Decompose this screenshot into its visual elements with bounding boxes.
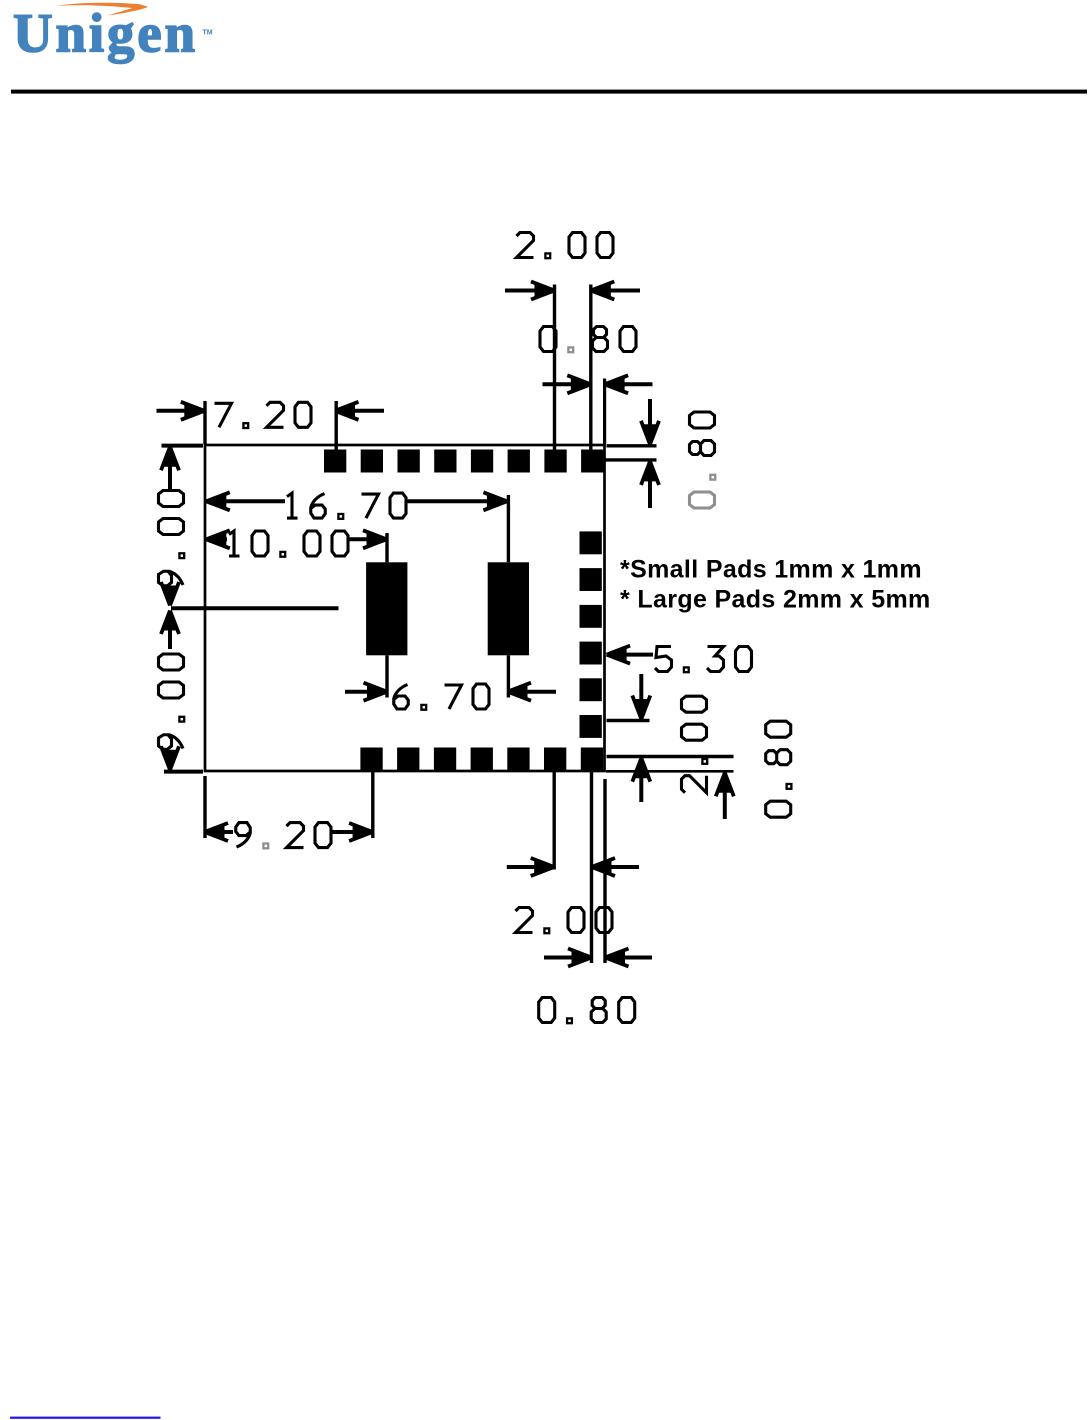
dim 2.00 right: up arrow — [632, 758, 650, 782]
dim text 0.80 right (rotated) — [766, 721, 792, 817]
dim text 0.80 top — [540, 327, 636, 353]
dim 9.00 lower: up arrow at center line — [161, 611, 179, 635]
bottom pad row (7 small pads) — [360, 748, 382, 771]
dim 6.70: right pad center extension below pad — [507, 655, 510, 697]
dim 5.30: left-pointing arrow at right edge — [607, 646, 631, 664]
dim text 0.80 top-right (rotated) — [690, 412, 716, 508]
dim 7.20: right-pointing arrow — [157, 409, 205, 413]
dim 6.70: right-pointing arrow — [345, 690, 387, 694]
dim 10.00: left-pointing arrow at left edge — [206, 530, 230, 548]
dim 0.80 bottom: right edge extension below package — [603, 779, 606, 963]
dim 0.80 top-right: up arrow — [641, 461, 659, 485]
dim 0.80 top: right edge extension line — [603, 379, 606, 445]
dim text 0.80 bottom — [539, 998, 635, 1024]
footer blue rule — [10, 1417, 161, 1419]
dim 9.00 lower: bottom tick — [164, 770, 203, 774]
dim 7.20: left-pointing arrow — [335, 402, 359, 420]
svg-text:*Small Pads 1mm x 1mm: *Small Pads 1mm x 1mm — [620, 556, 922, 584]
dim text 10.00 — [229, 531, 348, 557]
dim 6.70: left-pointing arrow — [508, 683, 532, 701]
dim 2.00 bottom: pad6 center extension — [553, 771, 556, 870]
top pad row (8 small pads) — [324, 450, 346, 473]
dim 16.70: left-pointing arrow at left edge — [206, 492, 230, 510]
large pad right (2mm x 5mm) — [488, 562, 529, 655]
dim text 2.00 bottom — [516, 908, 613, 934]
dim 0.80 top-right: upper tick — [607, 444, 657, 447]
large pad left (2mm x 5mm) — [366, 562, 407, 655]
dim text 5.30 — [655, 647, 752, 673]
dim 16.70: right-pointing arrow — [406, 499, 507, 503]
dim 9.00 upper: down arrow at center line — [168, 588, 172, 606]
dim 6.70: left pad center extension below pad — [385, 655, 388, 697]
dim 2.00 right: down arrow — [639, 674, 643, 719]
horizontal center line — [171, 606, 339, 610]
dim text 2.00 top — [517, 233, 614, 259]
dim 0.80 bottom: left-pointing arrow — [605, 949, 629, 967]
dim 2.00 top: extension line pad8 center — [589, 285, 592, 461]
dim 2.00 top: right-pointing arrow — [505, 289, 555, 293]
dim 2.00 bottom: pad7 center extension — [590, 771, 593, 964]
dim text 9.00 lower (rotated) — [159, 654, 185, 749]
dim 0.80 top-right: down arrow — [648, 399, 652, 444]
dim 10.00: right-pointing arrow — [348, 537, 387, 541]
dim text 9.00 upper (rotated) — [159, 491, 185, 586]
dim 0.80 right: up arrow — [716, 773, 734, 797]
dim text 7.20 — [215, 402, 312, 428]
package outline — [205, 445, 605, 771]
dim 2.00 top: left-pointing arrow — [591, 282, 615, 300]
dim 9.20: right-pointing arrow — [330, 830, 373, 834]
dim 0.80 top: left-pointing arrow — [605, 375, 629, 393]
dim text 9.20 — [236, 823, 331, 849]
dim text 6.70 — [394, 684, 489, 710]
dim 0.80 bottom: right-pointing arrow — [544, 956, 592, 960]
dim 2.00 right: lower tick — [607, 755, 734, 758]
dim text 2.00 right (rotated) — [682, 696, 708, 793]
dim 9.20: left edge extension below package — [203, 776, 206, 838]
dim 9.00 upper: up arrow at top tick — [161, 447, 179, 471]
dim 0.80 top: right-pointing arrow — [543, 382, 591, 386]
dim 9.00 upper: top tick — [162, 444, 204, 448]
svg-text:* Large Pads 2mm x 5mm: * Large Pads 2mm x 5mm — [620, 586, 931, 614]
right pad column (6 small pads) — [580, 531, 602, 554]
dim 0.80 right: bottom edge extension line — [606, 770, 734, 773]
logo orange swoosh — [56, 3, 149, 16]
dim 2.00 bottom: left-pointing arrow — [592, 858, 616, 876]
dim text 16.70 — [287, 493, 406, 519]
svg-text:Unigen: Unigen — [13, 3, 198, 64]
dim 2.00 bottom: right-pointing arrow — [507, 865, 554, 869]
dim 9.20: bottom pad1 center extension — [371, 771, 374, 839]
svg-text:TM: TM — [203, 30, 213, 37]
dim 7.20: left edge extension line — [203, 401, 206, 444]
dim 7.20: pad-1-center extension line — [335, 401, 338, 455]
dim 10.00: left large pad center extension — [385, 533, 388, 562]
header rule — [11, 90, 1087, 94]
dim 9.20: left-pointing arrow — [205, 823, 229, 841]
dim 9.00 lower: down arrow at bottom tick — [168, 752, 172, 770]
dim 2.00 right: upper tick — [607, 719, 650, 722]
dim 16.70: right large pad center extension — [507, 495, 510, 562]
dim 2.00 top: extension line pad7 center — [553, 285, 556, 461]
dim 0.80 top-right: lower tick — [605, 458, 657, 461]
